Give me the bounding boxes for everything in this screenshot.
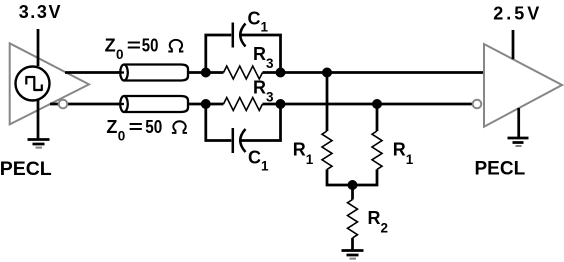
svg-text:R2: R2 [368, 208, 389, 236]
svg-text:2.5V: 2.5V [493, 4, 542, 24]
svg-text:R3: R3 [253, 44, 274, 71]
wire T2 to node C [188, 103, 206, 106]
svg-text:PECL: PECL [475, 159, 526, 180]
junction dot bottom rail (R1 tap) [372, 99, 382, 109]
transmission line T2 (coax cylinder) [117, 96, 188, 112]
resistor R1 (left) [322, 73, 353, 186]
wire U1 to ground [37, 100, 40, 139]
junction dot top rail (R1 tap) [322, 68, 332, 78]
resistor R2 [348, 185, 358, 250]
wire T1 to node A [188, 71, 206, 74]
svg-text:R3: R3 [253, 77, 274, 104]
transmission line T1 (coax cylinder) [117, 65, 188, 81]
node A (junction dot after T1) [201, 68, 211, 78]
capacitor C1 (bottom) plates [233, 128, 246, 153]
wire node D to receiver bubble [281, 103, 473, 106]
3.3V supply wire [37, 29, 40, 66]
wire node B to receiver [281, 71, 485, 74]
svg-text:R1: R1 [393, 140, 414, 168]
resistor R3 (top) [206, 66, 281, 79]
source circle (clock symbol) [16, 67, 50, 101]
svg-text:C1: C1 [248, 9, 269, 35]
ground (right, under U2) [508, 138, 529, 146]
wire U2 to ground [517, 108, 520, 138]
node C (junction dot after T2) [201, 99, 211, 109]
resistor R3 (bottom) [206, 98, 281, 111]
driver U1 (PECL triangle) [10, 43, 89, 124]
svg-text:PECL: PECL [0, 158, 52, 180]
svg-text:Z0=50: Z0=50 [105, 36, 159, 63]
capacitor C1 (top) loop wires [206, 35, 281, 73]
svg-text:Z0=50: Z0=50 [106, 117, 162, 144]
capacitor C1 (bottom) loop wires [206, 104, 281, 141]
svg-text:R1: R1 [293, 140, 314, 168]
svg-text:3.3V: 3.3V [19, 2, 62, 22]
node E (junction dot R1/R1/R2) [348, 180, 358, 190]
ground (left, under U1) [28, 140, 50, 148]
ground (under R2) [342, 251, 364, 259]
node B (junction dot after R3 top) [276, 68, 286, 78]
resistor R1 (right) [353, 104, 383, 185]
inversion bubble (driver) [59, 100, 68, 109]
capacitor C1 (top) plates [233, 23, 246, 48]
svg-text:C1: C1 [248, 147, 269, 173]
wire Q-out to T1 [65, 71, 124, 74]
2.5V supply wire [512, 30, 515, 59]
node D (junction dot after R3 bottom) [276, 99, 286, 109]
receiver U2 (PECL triangle) [484, 44, 562, 127]
wire Qbar-out to T2 [50, 103, 124, 106]
inversion bubble (receiver) [473, 100, 482, 109]
square wave glyph [26, 77, 42, 90]
